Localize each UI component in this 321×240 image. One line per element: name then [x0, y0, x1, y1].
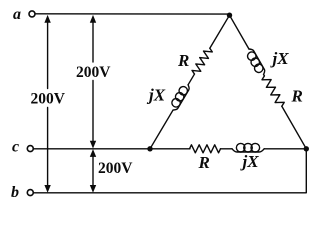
wire c-line left [34, 148, 190, 150]
inductor jX right leg [244, 47, 266, 77]
resistor R right leg [262, 76, 284, 106]
node a terminal [29, 11, 35, 17]
wire left leg lower [150, 110, 173, 149]
svg-text:R: R [291, 87, 303, 106]
voltage arrow a-b line [47, 22, 49, 188]
svg-text:200V: 200V [31, 91, 66, 108]
wire right leg lower [282, 106, 306, 149]
inductor jX bottom leg [232, 143, 264, 152]
inductor jX left leg [168, 82, 190, 112]
svg-text:a: a [13, 6, 21, 23]
wire left leg middle [188, 74, 194, 85]
svg-text:R: R [177, 51, 189, 70]
svg-text:b: b [11, 184, 19, 201]
svg-text:200V: 200V [98, 160, 133, 177]
svg-text:jX: jX [270, 49, 290, 68]
wire left leg upper [210, 15, 230, 48]
junction bottom-right vertex [304, 146, 309, 151]
voltage arrow c-b heads [90, 149, 96, 193]
wire b-line [34, 149, 306, 193]
wire c-line right [264, 148, 306, 150]
resistor R left leg [192, 48, 212, 74]
svg-text:c: c [12, 139, 19, 156]
wire c-line mid [221, 148, 233, 150]
voltage arrow a-c line [92, 22, 94, 144]
voltage arrow a-c heads [90, 15, 96, 149]
junction bottom-left vertex [147, 146, 152, 151]
node b terminal [27, 190, 33, 196]
svg-text:jX: jX [146, 86, 166, 105]
wire right leg middle [263, 75, 266, 76]
svg-text:R: R [198, 153, 210, 172]
svg-text:200V: 200V [76, 64, 111, 81]
node c terminal [27, 146, 33, 152]
voltage arrow c-b line [92, 156, 94, 188]
wire a-line [36, 13, 230, 15]
junction top vertex [227, 13, 232, 18]
svg-text:jX: jX [240, 152, 260, 171]
wire right leg upper [230, 15, 249, 49]
voltage arrow a-b heads [44, 15, 50, 193]
resistor R bottom leg [190, 145, 221, 153]
